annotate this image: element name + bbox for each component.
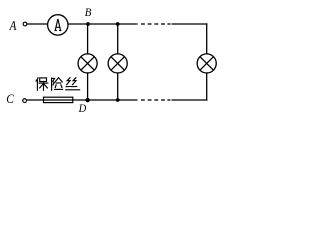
svg-text:B: B — [85, 7, 92, 20]
svg-text:D: D — [78, 102, 87, 115]
svg-text:C: C — [6, 91, 14, 106]
svg-text:A: A — [9, 18, 17, 33]
